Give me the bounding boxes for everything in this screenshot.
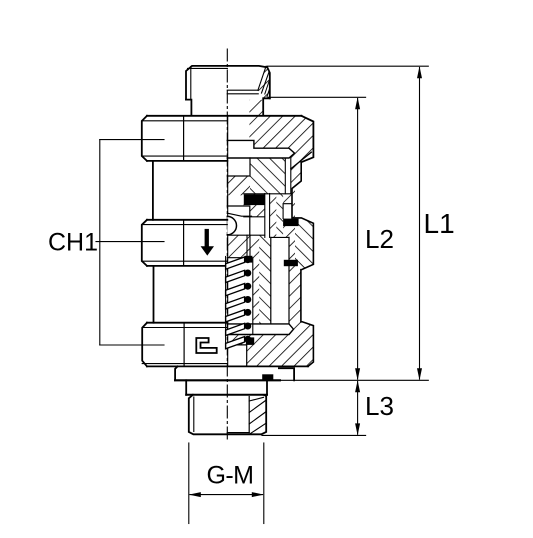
flow direction arrow bbox=[201, 229, 214, 256]
hex2 top chamfer line bbox=[142, 224, 228, 226]
white: spring zone bbox=[227, 258, 252, 324]
mid body right profile bbox=[292, 162, 313, 366]
L3 extension line bottom bbox=[262, 434, 366, 436]
hex3 top edge bbox=[147, 322, 227, 324]
L3 dimension line bbox=[355, 380, 360, 435]
L1 extension line top bbox=[267, 65, 428, 67]
top stud thread line bbox=[190, 67, 192, 100]
hex1 block long chamfer slant bbox=[291, 152, 312, 169]
washer left edge bbox=[175, 366, 178, 380]
bottom stud thread runout bbox=[262, 395, 267, 397]
top stud outline view bbox=[186, 66, 270, 100]
white: bottom port bore bbox=[227, 345, 246, 366]
L2 extension line top bbox=[268, 96, 366, 98]
collar right edge bbox=[266, 380, 268, 395]
top stud thread chamfer slants bbox=[258, 66, 266, 90]
CH1 leader lines bbox=[96, 140, 164, 345]
svg-text:L3: L3 bbox=[365, 391, 394, 421]
bottom stud thread relief line view side bbox=[193, 397, 195, 432]
top stud left step bbox=[186, 100, 191, 116]
ball bbox=[227, 216, 236, 234]
ring area boundary lines bbox=[284, 158, 286, 194]
spring seat face and bore wall bbox=[227, 345, 246, 366]
spring bore wall line bbox=[252, 258, 254, 334]
o-ring seal lower right bbox=[284, 260, 298, 266]
o-ring seal piston bbox=[244, 194, 265, 205]
hex1 bottom chamfer line bbox=[142, 155, 228, 157]
hex2 top edge bbox=[147, 219, 227, 221]
mid cylinder 2 left edge bbox=[153, 266, 155, 323]
poppet skirt lines bbox=[246, 235, 248, 258]
pocket edges bbox=[283, 204, 292, 219]
hatch: wall patch right bbox=[292, 162, 301, 188]
svg-text:L2: L2 bbox=[365, 224, 394, 254]
top stud right step bbox=[263, 98, 270, 115]
bottom stud bore line bbox=[248, 397, 250, 433]
hex3 top chamfer line bbox=[142, 327, 227, 329]
top stud bore seat lines bbox=[227, 89, 258, 91]
collar left edge bbox=[185, 380, 187, 395]
hex2 facet line bbox=[183, 220, 185, 266]
svg-text:G-M: G-M bbox=[207, 461, 254, 489]
hex3 facet line bbox=[183, 323, 185, 367]
lower channel outline bbox=[227, 324, 293, 335]
shoulder extension line to dimensions bbox=[280, 379, 428, 381]
hex3 bottom chamfer line bbox=[142, 363, 227, 365]
hex1 top chamfer line bbox=[142, 120, 228, 122]
white: upper radial channel bbox=[227, 140, 294, 158]
logo mark bbox=[196, 338, 216, 353]
white: slot beside piston seal bbox=[265, 194, 270, 238]
centerline bbox=[226, 49, 228, 442]
hatch: stem column herringbone overlay bbox=[259, 235, 271, 324]
bottom stud thread slants bbox=[249, 397, 263, 401]
white: pocket above seal bbox=[227, 195, 243, 206]
chamber outline bbox=[227, 206, 250, 235]
bottom stud bore face bbox=[227, 432, 249, 434]
hatch: hex2 right block section bbox=[295, 218, 313, 270]
svg-text:CH1: CH1 bbox=[48, 229, 98, 257]
hatch: top stud wall section bbox=[258, 66, 270, 98]
white: lower radial channel bbox=[227, 324, 293, 335]
spring top end coil bbox=[244, 256, 252, 263]
hex1 top edge bbox=[147, 115, 301, 117]
body top block right profile bbox=[301, 116, 313, 162]
hex2 outline view bbox=[142, 220, 147, 266]
G-M extension lines bbox=[189, 443, 264, 524]
spring coil bars bbox=[226, 257, 245, 349]
white: cavity step below hex1 bbox=[227, 158, 250, 176]
upper channel outline bbox=[227, 140, 294, 158]
white: spring cavity top pocket bbox=[250, 217, 265, 235]
o-ring seal upper right bbox=[283, 219, 299, 227]
spring bottom end coil bbox=[246, 337, 254, 345]
hex3 / body bottom edge bbox=[147, 365, 308, 367]
hatch: neck wall section bbox=[249, 100, 263, 116]
shoulder line bbox=[175, 379, 280, 381]
collar bottom edge bbox=[186, 394, 267, 396]
hex2 bottom chamfer line bbox=[142, 260, 228, 262]
hatch: hex3 right block section bbox=[295, 322, 313, 366]
hatch: ring area below hex1 (opposite direction) bbox=[250, 158, 285, 194]
bottom stud outline bbox=[189, 395, 266, 435]
spring wire sections bbox=[244, 256, 251, 343]
section boundary line at centerline bbox=[227, 116, 229, 366]
L1 dimension line bbox=[417, 66, 422, 380]
spring left silhouette line bbox=[225, 257, 227, 347]
white: slot ring bbox=[285, 158, 291, 194]
hex1 outline view bbox=[142, 116, 147, 161]
mid cylinder 1 left edge bbox=[152, 161, 154, 220]
cavity step lines bbox=[227, 158, 250, 176]
G-M dimension line bbox=[189, 492, 264, 497]
hatch: sleeve wall herringbone overlay bbox=[276, 194, 283, 238]
stem column edges bbox=[270, 237, 272, 324]
L2 dimension line bbox=[355, 97, 360, 380]
white: ball chamber bbox=[227, 206, 250, 235]
white: pocket above upper right o-ring bbox=[283, 204, 292, 219]
hex2 bottom edge bbox=[147, 265, 227, 267]
hex1 facet line bbox=[183, 116, 185, 161]
hatch: wall strip between hex2 and hex3 bbox=[295, 270, 301, 322]
washer right edge bbox=[279, 368, 294, 380]
hatch: middle body mass section bbox=[227, 161, 295, 366]
hatch: body top block (hex1 section) bbox=[249, 116, 313, 162]
hex1 bottom edge bbox=[147, 160, 227, 162]
piston slot edges bbox=[264, 194, 266, 238]
hex3 outline view bbox=[142, 323, 147, 367]
top stud face chamfer line bbox=[188, 67, 228, 69]
svg-text:L1: L1 bbox=[424, 208, 455, 239]
bonded seal bottom port bbox=[262, 374, 273, 380]
white: gap column between cartridge and body bbox=[271, 237, 289, 324]
